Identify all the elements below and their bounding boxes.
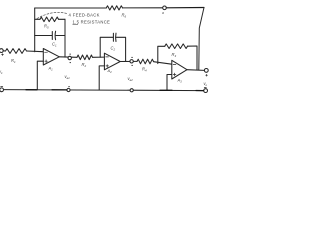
plus A1 xyxy=(45,60,48,63)
op-amp A3 xyxy=(172,60,187,79)
terminal ground left xyxy=(0,88,4,92)
terminal A2 output xyxy=(130,60,133,63)
terminal dots A1 output xyxy=(69,54,72,63)
plus A3 xyxy=(173,73,176,76)
plus mark output xyxy=(206,74,208,76)
terminal A1 output xyxy=(68,56,71,59)
plus A2 xyxy=(106,65,109,68)
terminal dots A2 output xyxy=(131,57,134,65)
resistor R3 xyxy=(165,44,188,49)
minus mark ground right xyxy=(204,86,206,88)
svg-text:R3: R3 xyxy=(172,52,177,58)
wire R2 to A2 xyxy=(93,56,105,58)
node a circle xyxy=(163,6,167,10)
svg-text:R6: R6 xyxy=(122,13,127,19)
op-amp A1 xyxy=(43,49,59,66)
dashed annotation arc xyxy=(37,12,68,18)
svg-text:A2: A2 xyxy=(107,68,113,74)
svg-text:1.5 RESISTANCE: 1.5 RESISTANCE xyxy=(73,19,111,24)
terminal ground under A2 xyxy=(130,89,133,92)
darker rail segments xyxy=(26,89,204,92)
minus A2 xyxy=(106,56,109,58)
svg-text:4 FEED-BACK: 4 FEED-BACK xyxy=(69,12,100,17)
minus mark ground left xyxy=(1,85,3,87)
wire A3 plus ground loop xyxy=(167,75,172,91)
wire input to R1 xyxy=(3,50,5,52)
terminal ground under A1 xyxy=(67,88,70,91)
plus mark input xyxy=(2,54,4,56)
capacitor C1 xyxy=(52,31,55,40)
svg-text:A1: A1 xyxy=(48,66,54,72)
wire A2 plus ground loop xyxy=(99,66,104,90)
resistor R6 xyxy=(106,6,122,10)
svg-text:R4: R4 xyxy=(142,67,147,73)
wire A2 output xyxy=(120,60,137,62)
wire A3 output xyxy=(187,69,204,72)
svg-text:va1: va1 xyxy=(65,74,71,80)
wire A1 feedback capacitor row xyxy=(35,35,65,37)
wire A1 plus ground loop xyxy=(37,61,43,90)
svg-text:vo: vo xyxy=(204,81,208,87)
resistor R1 xyxy=(6,49,27,54)
capacitor C2 xyxy=(113,33,116,41)
wire top line node to corner xyxy=(166,7,204,9)
svg-text:A3: A3 xyxy=(177,78,183,84)
wire top feedback line left segment xyxy=(35,7,107,9)
svg-text:va2: va2 xyxy=(128,76,134,82)
wire A1 feedback resistor row xyxy=(35,18,65,20)
op-amp A2 xyxy=(104,53,120,70)
svg-text:C2: C2 xyxy=(111,46,116,52)
wire top feedback line right segment xyxy=(123,7,163,9)
svg-text:v1: v1 xyxy=(0,69,3,75)
wire R3 feedback loop xyxy=(158,46,197,70)
resistor R5 xyxy=(40,17,59,22)
resistor R4 xyxy=(137,59,154,64)
wire R4 to A3 xyxy=(154,62,172,64)
svg-text:R5: R5 xyxy=(44,24,49,30)
terminal Vout circle xyxy=(204,69,208,73)
resistor R2 xyxy=(77,55,93,60)
wire A1 output xyxy=(59,56,77,59)
ground rail xyxy=(4,90,204,91)
svg-text:C1: C1 xyxy=(52,42,57,48)
svg-text:R1: R1 xyxy=(11,58,16,64)
svg-text:R2: R2 xyxy=(82,62,87,68)
terminal Vin circle xyxy=(0,49,3,53)
wire A1 feedback right vertical xyxy=(64,19,66,57)
wire top feedback left vertical xyxy=(34,8,36,52)
wire C2 loop xyxy=(100,37,125,61)
wire R1 to A1 input xyxy=(27,50,44,53)
minus A1 xyxy=(45,51,48,53)
dot above ground terminal A1 xyxy=(68,86,71,88)
svg-text:a: a xyxy=(162,11,164,15)
annotation underline xyxy=(73,23,79,25)
terminal ground right xyxy=(204,89,208,93)
wire right feedback vertical xyxy=(199,8,204,71)
minus A3 xyxy=(173,64,176,66)
